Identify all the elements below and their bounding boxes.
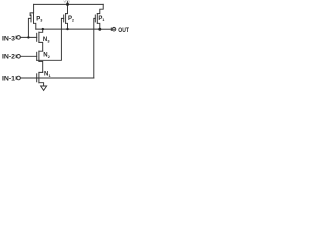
- label P3: [36, 16, 42, 22]
- wire: OUT net horizontal: [36, 28, 100, 30]
- label P2: [68, 16, 74, 22]
- node: P2 drain on OUT: [66, 28, 68, 30]
- IN-3 terminal: [15, 36, 17, 39]
- svg-text:3: 3: [47, 39, 49, 43]
- transistor N3: [37, 29, 43, 51]
- ground: [41, 86, 47, 90]
- svg-text:1: 1: [102, 18, 104, 22]
- label N3: [43, 37, 50, 43]
- svg-text:IN-2: IN-2: [2, 54, 16, 61]
- wire: OUT stub to terminal: [100, 28, 112, 30]
- label N2: [43, 52, 50, 58]
- node: VDD junction: [66, 3, 69, 6]
- wire: IN-3 riser to P3 gate: [28, 18, 31, 37]
- transistor N1: [37, 72, 44, 86]
- transistor P2: [64, 4, 68, 29]
- svg-text:VDD: VDD: [64, 0, 71, 3]
- node: N3 drain on OUT: [42, 28, 44, 30]
- IN-2 terminal: [15, 55, 17, 58]
- IN-1 terminal: [15, 77, 17, 80]
- transistor P1: [95, 4, 103, 29]
- label N1: [44, 72, 51, 78]
- svg-text:IN-1: IN-1: [2, 75, 16, 82]
- transistor P3: [30, 4, 36, 29]
- node: IN-3 junction: [27, 36, 29, 38]
- VDD rail: [34, 3, 104, 5]
- wire: IN-3 net: [20, 36, 37, 38]
- svg-text:1: 1: [49, 74, 51, 78]
- wire: IN-1 riser to P1 gate: [94, 18, 96, 78]
- svg-text:IN-3: IN-3: [2, 36, 16, 43]
- transistor N2: [37, 51, 43, 72]
- wire: IN-2 wrap to P2 gate: [37, 18, 64, 60]
- node: P1 drain / OUT tap: [98, 28, 101, 31]
- svg-text:2: 2: [48, 55, 50, 59]
- label P1: [98, 16, 104, 22]
- svg-text:2: 2: [72, 19, 74, 23]
- svg-text:3: 3: [40, 19, 42, 23]
- VDD stub: [67, 1, 69, 4]
- wire: IN-1 net: [20, 77, 94, 79]
- wire: IN-2 net: [20, 55, 37, 57]
- svg-text:OUT: OUT: [118, 27, 129, 34]
- OUT terminal: [110, 28, 112, 31]
